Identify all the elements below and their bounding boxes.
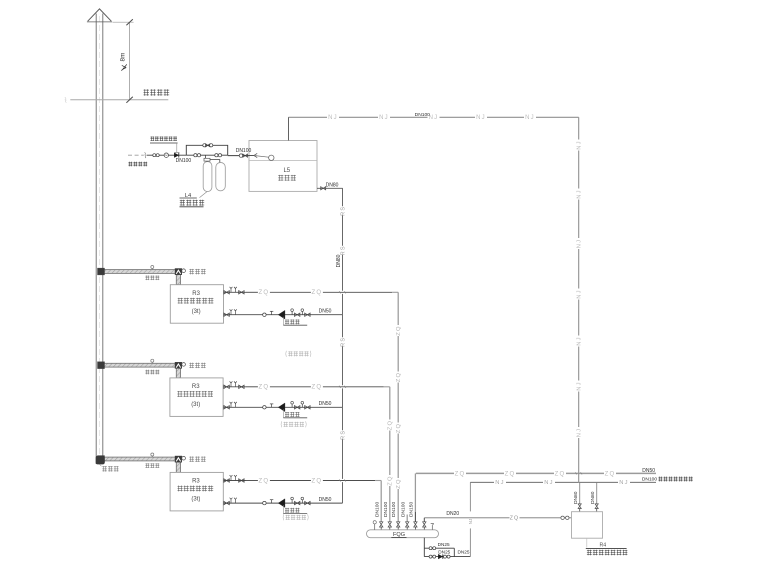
explosion door symbol flue 3 — [182, 456, 186, 460]
svg-text:ZQ: ZQ — [388, 420, 394, 430]
tank top condensate pipe — [288, 117, 290, 140]
ground label 室外地面 — [144, 89, 170, 95]
svg-text:DN100: DN100 — [642, 477, 658, 483]
svg-text:DN80: DN80 — [336, 254, 342, 267]
svg-text:ZQ: ZQ — [455, 471, 466, 477]
label 市政管网 — [128, 162, 147, 167]
damper 调节阀 flue 2 — [145, 359, 159, 374]
flue duct boiler 3 — [98, 456, 182, 473]
svg-text:DN50: DN50 — [319, 309, 332, 315]
svg-text:8m: 8m — [120, 53, 127, 62]
condensate top pipe NJ — [289, 115, 579, 121]
svg-text:ZQ: ZQ — [396, 478, 402, 488]
steam drop pipe boiler3 ZQ — [380, 481, 382, 522]
FQG right stub — [431, 524, 434, 530]
FQG drop DN labels — [375, 501, 415, 517]
label DN80 on RS pipe — [336, 254, 342, 267]
svg-text:NJ: NJ — [577, 189, 583, 199]
condensate main pipe NJ — [470, 480, 656, 486]
damper 调节阀 flue 1 — [145, 266, 159, 281]
main steam pipe ZQ — [416, 471, 656, 477]
upper drain pipe DN25 — [424, 542, 454, 556]
tank outlet pipe DN80 — [317, 182, 343, 190]
steam drop pipe boiler1 ZQ — [396, 292, 402, 521]
label DN100 top NJ — [415, 112, 431, 118]
svg-text:(3t): (3t) — [191, 402, 200, 408]
label DN100 condensate outlet — [642, 477, 658, 483]
softener tank 1 — [203, 162, 212, 192]
softener connections — [204, 155, 220, 162]
label 软水箱 — [278, 175, 296, 181]
svg-text:ZQ: ZQ — [312, 290, 323, 296]
pipe DN20 to condensate unit — [424, 511, 571, 522]
svg-text:DN100: DN100 — [415, 112, 431, 118]
FQG drain drop — [423, 538, 425, 557]
svg-text:ZQ: ZQ — [555, 471, 566, 477]
FQG drop valves — [380, 522, 427, 530]
svg-text:RS: RS — [340, 245, 346, 255]
svg-text:DN150: DN150 — [408, 501, 414, 517]
dimension line 8m — [113, 19, 134, 103]
label L4 — [180, 193, 197, 199]
flue duct boiler 1 — [98, 268, 182, 285]
label 防爆门 flue 2 — [189, 363, 205, 369]
label 排污监测装置 — [150, 137, 178, 144]
chimney rain cap — [87, 9, 112, 22]
svg-text:NJ: NJ — [577, 239, 583, 249]
svg-text:RS: RS — [340, 337, 346, 347]
svg-text:DN80: DN80 — [326, 182, 339, 188]
chimney stack — [96, 14, 103, 465]
svg-text:NJ: NJ — [429, 115, 439, 121]
svg-text:ZQ: ZQ — [259, 478, 270, 484]
softener tank 2 — [216, 162, 226, 190]
boiler3 feed water pipe — [224, 497, 343, 514]
lower drain pipe DN25 — [424, 549, 470, 559]
steam header FQG — [367, 530, 439, 538]
svg-text:ZQ: ZQ — [505, 471, 516, 477]
label R4 — [599, 543, 606, 549]
label 给水泵 boiler1 — [0, 0, 1, 1]
svg-text:DN80: DN80 — [590, 491, 596, 504]
svg-text:NJ: NJ — [476, 115, 486, 121]
main steam riser DN150 — [414, 473, 416, 521]
svg-text:NJ: NJ — [577, 140, 583, 150]
svg-text:ZQ: ZQ — [388, 475, 394, 485]
svg-text:DN50: DN50 — [642, 468, 655, 474]
pipe to tank DN100 — [228, 148, 252, 158]
chimney bottom cap — [96, 456, 105, 465]
svg-text:DN25: DN25 — [458, 550, 470, 555]
svg-text:ZQ: ZQ — [396, 325, 402, 335]
soft water tank L5 box — [249, 141, 317, 192]
tank float valve — [249, 153, 274, 160]
boiler R3 #1 燃气蒸汽锅炉 (3t) — [170, 285, 223, 324]
damper 调节阀 flue 3 — [145, 453, 159, 468]
condensate drop 2 DN80 — [590, 482, 598, 511]
svg-text:NJ: NJ — [577, 381, 583, 391]
svg-text:DN50: DN50 — [319, 401, 332, 407]
svg-text:ZQ: ZQ — [396, 423, 402, 433]
steam drop pipe boiler2 ZQ — [388, 387, 394, 522]
svg-text:DN100: DN100 — [375, 501, 381, 517]
svg-text:ZQ: ZQ — [510, 516, 520, 522]
L4 label leader — [200, 192, 208, 198]
svg-text:NJ: NJ — [544, 480, 554, 486]
svg-text:ZQ: ZQ — [259, 385, 270, 391]
boiler2 steam pipe ZQ — [224, 381, 390, 390]
blowdown monitor leader — [176, 144, 178, 153]
svg-text:ZQ: ZQ — [605, 471, 616, 477]
boiler1 feed water pipe — [224, 309, 343, 326]
label DN100 inlet — [176, 158, 192, 164]
svg-text:NJ: NJ — [577, 428, 583, 438]
svg-text:R3: R3 — [192, 291, 200, 297]
boiler2 feed water pipe — [224, 401, 343, 418]
explosion door symbol flue 1 — [182, 269, 186, 273]
svg-text:(3t): (3t) — [192, 309, 201, 315]
tank water level line — [249, 160, 317, 162]
svg-text:(3t): (3t) — [191, 497, 200, 503]
city water pipe 市政管网 — [128, 152, 186, 158]
label 防爆门 flue 1 — [189, 269, 205, 275]
condensate right riser NJ — [577, 117, 583, 482]
label 防爆门 chimney bottom — [100, 464, 119, 471]
svg-text:NJ: NJ — [577, 336, 583, 346]
boiler3 steam pipe ZQ — [224, 475, 382, 484]
svg-text:DN80: DN80 — [573, 491, 579, 504]
flue duct boiler 2 — [98, 362, 182, 378]
label (锅炉配套) boiler3 — [283, 514, 308, 520]
svg-text:R4: R4 — [599, 543, 606, 549]
label 软水装置 — [180, 200, 205, 207]
condensate recovery unit R4 box — [572, 512, 603, 539]
svg-text:DN25: DN25 — [438, 549, 450, 554]
label (锅炉配套) boiler2 — [281, 421, 306, 427]
boiler1 steam pipe ZQ — [224, 287, 399, 296]
svg-text:DN25: DN25 — [438, 542, 450, 547]
svg-text:NJ: NJ — [577, 289, 583, 299]
svg-text:DN100: DN100 — [176, 158, 192, 164]
svg-text:DN100: DN100 — [383, 501, 389, 517]
spare drop stub — [406, 515, 408, 522]
svg-text:NJ: NJ — [328, 115, 338, 121]
svg-text:NJ: NJ — [495, 480, 505, 486]
svg-text:DN100: DN100 — [236, 148, 252, 154]
label 中心供应用蒸汽 — [658, 477, 692, 482]
svg-text:R3: R3 — [192, 479, 200, 485]
FQG pressure gauge stub — [373, 521, 376, 530]
svg-text:ZQ: ZQ — [396, 372, 402, 382]
svg-text:NJ: NJ — [379, 115, 389, 121]
svg-text:DN100: DN100 — [400, 501, 406, 517]
svg-text:DN100: DN100 — [391, 501, 397, 517]
svg-text:R3: R3 — [192, 384, 200, 390]
label 防爆门 flue 3 — [189, 456, 205, 462]
svg-text:ZQ: ZQ — [312, 478, 323, 484]
svg-text:NJ: NJ — [525, 115, 535, 121]
svg-text:RS: RS — [340, 430, 346, 440]
soft water pipe RS vertical — [340, 188, 346, 503]
svg-text:DN20: DN20 — [446, 511, 459, 517]
svg-text:NJ: NJ — [619, 480, 629, 486]
svg-text:ZQ: ZQ — [312, 385, 323, 391]
svg-text:NJ: NJ — [468, 519, 473, 525]
label DN50 steam outlet — [642, 468, 655, 474]
label 凝结水回收装置 — [586, 548, 628, 555]
svg-text:L5: L5 — [283, 168, 290, 174]
svg-text:ZQ: ZQ — [259, 290, 270, 296]
boiler R3 #2 燃气蒸汽锅炉 (3t) — [170, 378, 223, 417]
inlet valves — [153, 153, 169, 157]
label L5 — [283, 168, 290, 174]
outdoor ground line — [65, 97, 169, 102]
explosion door symbol flue 2 — [182, 363, 186, 367]
label (锅炉配套) boiler1 — [286, 351, 311, 357]
svg-text:DN50: DN50 — [319, 497, 332, 503]
condensate drop 1 DN80 — [573, 482, 581, 511]
check valve city inlet — [174, 152, 179, 157]
softener main pipe — [186, 154, 227, 157]
svg-text:RS: RS — [340, 206, 346, 216]
drain riser NJ — [468, 482, 473, 556]
boiler R3 #3 燃气蒸汽锅炉 (3t) — [170, 472, 223, 511]
softener bypass pipe — [186, 144, 227, 156]
R4 leader line — [586, 538, 588, 547]
